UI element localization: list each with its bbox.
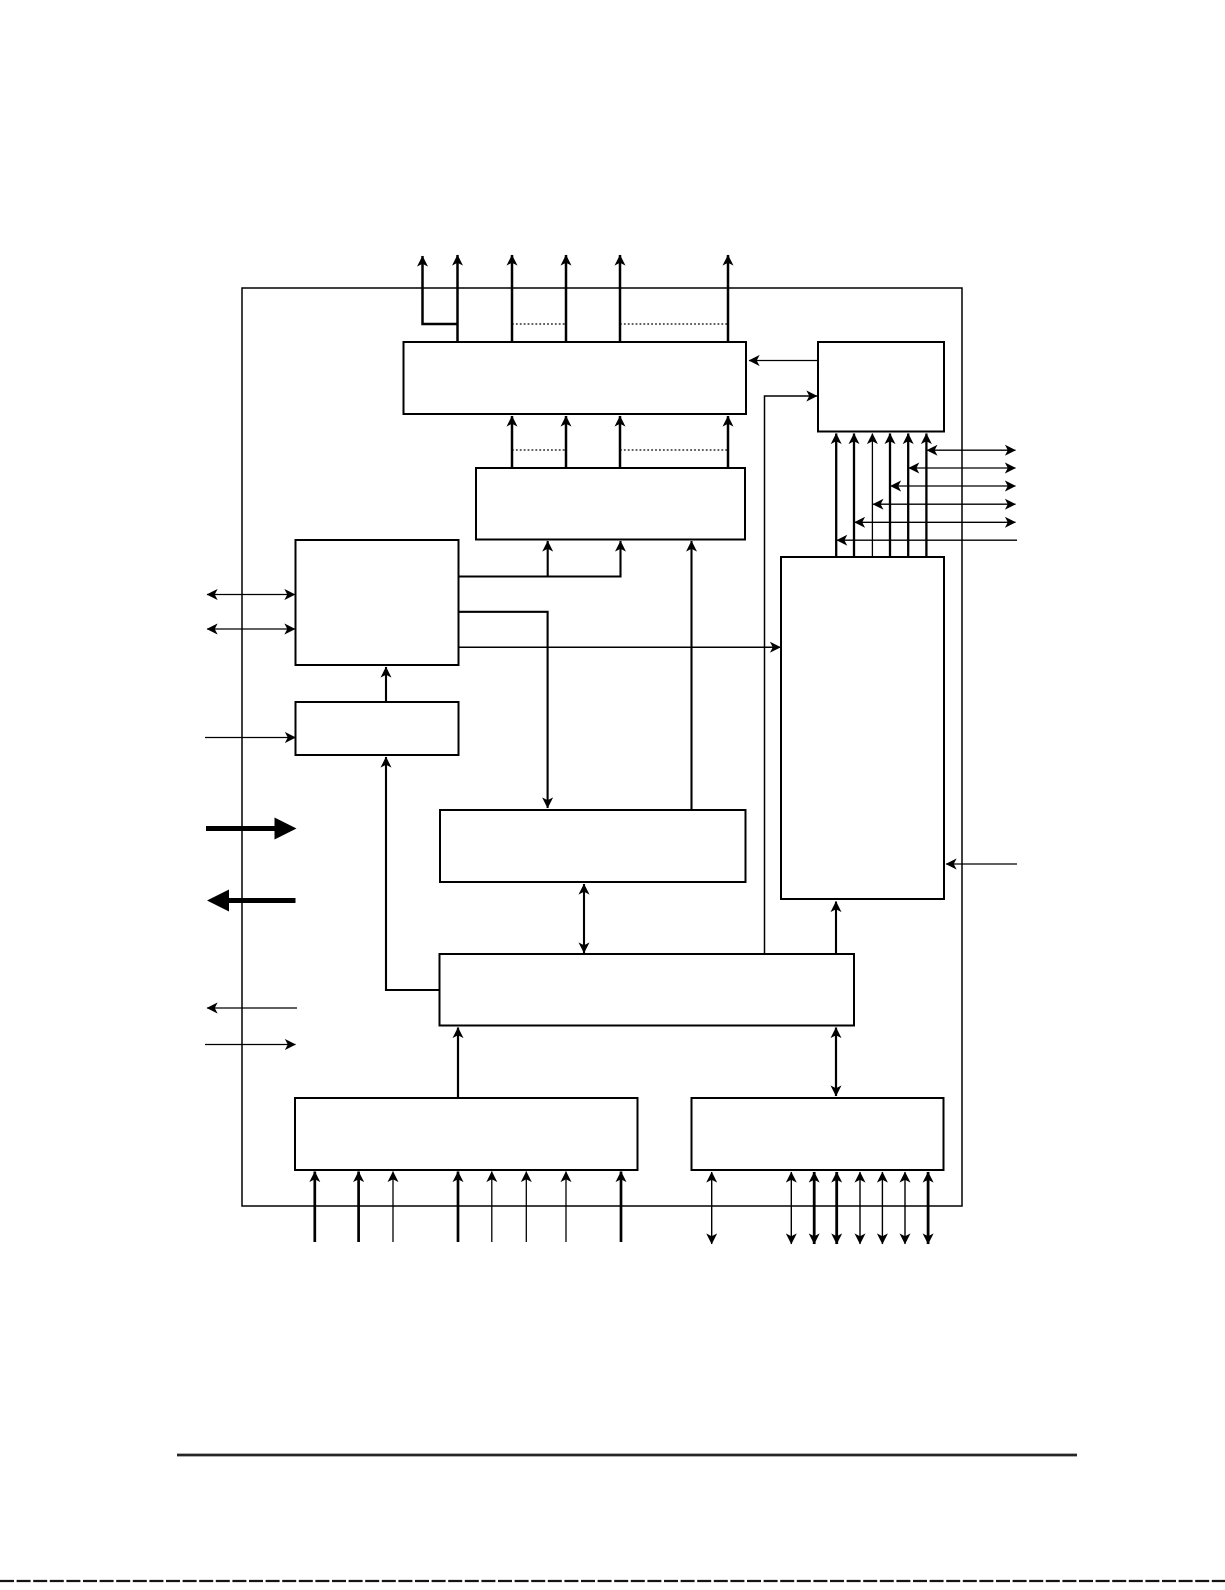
wire bus output arrow 6 from block B1 top [727, 255, 730, 343]
wire bus line 2 from block B6 top to block B10 bottom [853, 434, 855, 558]
bus continuation dotted line between B2-B1 arrows 3-4 [620, 449, 727, 451]
wire input arrow 7 into block B8 bottom [565, 1172, 567, 1243]
bidirectional external bus line 1 [927, 449, 1016, 451]
outer frame border [242, 288, 962, 1206]
bidirectional wire between block B5 and block B7 [583, 884, 585, 953]
bidirectional external bus line 2 [909, 467, 1016, 469]
bidirectional external bus line 3 [891, 485, 1016, 487]
wire input arrow 5 into block B8 bottom [491, 1172, 493, 1243]
wire bus line 5 from block B6 top to block B10 bottom [907, 434, 909, 558]
bidirectional external bus line 5 [855, 521, 1016, 523]
wire input arrow into block B4 left [205, 737, 296, 739]
wire from block B3 right edge to block B6 left [458, 646, 781, 648]
wire from block B7 left edge up to block B4 bottom [386, 757, 440, 990]
footer horizontal rule [177, 1454, 1077, 1457]
wire input arrow 2 into block B8 bottom [357, 1172, 360, 1243]
bidirectional wire 8 at block B9 bottom [927, 1172, 930, 1244]
wire from block B7 top up and right into block B10 [765, 396, 818, 954]
wire bus line 4 from block B6 top to block B10 bottom [889, 434, 891, 558]
wire bus output arrow 3 from block B1 top [511, 255, 514, 343]
wire input arrow pointing right at lower border [205, 1044, 296, 1046]
block B2 (second register) [476, 468, 745, 540]
wire bus line 3 from block B6 top to block B10 bottom [871, 434, 873, 558]
wire bus line 6 from block B6 top to block B10 bottom [925, 434, 927, 558]
bidirectional wire arrow at block B3 left (lower) [207, 628, 295, 630]
wire arrow from block B10 left to block B1 right [749, 360, 817, 362]
wire bus output arrow 2 from block B1 top [456, 255, 459, 343]
block B3 (left control block) [296, 540, 459, 665]
wire input arrow 6 into block B8 bottom [525, 1172, 527, 1243]
bidirectional wire 3 at block B9 bottom [813, 1172, 816, 1244]
block B4 (small left block) [296, 702, 459, 755]
bidirectional wire arrow at block B3 left (upper) [207, 594, 295, 596]
thick data bus arrow pointing left (output) [207, 890, 296, 912]
wire arrow from block B7 top to block B6 bottom [835, 902, 837, 955]
page bottom dashed line [0, 1580, 1225, 1582]
thick data bus arrow pointing right (input) [206, 818, 297, 840]
wire arrow 4 from block B2 to block B1 [727, 416, 730, 468]
wire from block B3 right edge to B2 inputs [458, 541, 621, 577]
block B6 (tall right block) [781, 557, 944, 899]
wire bus output arrow 5 from block B1 top [619, 255, 622, 343]
external bus line 6 (no right arrowhead) [837, 539, 1017, 541]
wire bus output arrow 4 from block B1 top [565, 255, 568, 343]
block B1 (top wide register) [404, 342, 747, 414]
wire input arrow 4 into block B8 bottom [457, 1172, 460, 1243]
bidirectional wire 5 at block B9 bottom [859, 1172, 861, 1244]
wire arrow 1 from block B2 to block B1 [511, 416, 514, 468]
block B7 (wide lower block) [440, 954, 855, 1026]
bidirectional wire 4 at block B9 bottom [835, 1172, 838, 1244]
bidirectional wire between block B7 and block B9 [835, 1028, 837, 1097]
bidirectional wire 2 at block B9 bottom [790, 1172, 792, 1244]
bidirectional wire 1 at block B9 bottom [711, 1172, 713, 1244]
wire output arrow pointing left at lower border [207, 1007, 297, 1009]
wire arrow 3 from block B2 to block B1 [619, 416, 622, 468]
wire bus output arrow 1 (jogged) from block B1 top [423, 256, 458, 324]
bus continuation dotted line between outputs 3-4 [512, 323, 566, 325]
wire arrow from block B8 top to block B7 bottom [457, 1028, 459, 1099]
wire vertical from block B5 top to block B2 bottom [690, 541, 692, 810]
wire from block B3 right edge down to block B5 top [458, 612, 548, 808]
bidirectional wire 6 at block B9 bottom [881, 1172, 883, 1244]
bidirectional wire 7 at block B9 bottom [904, 1172, 906, 1244]
bus continuation dotted line between B2-B1 arrows 1-2 [512, 449, 566, 451]
wire bus line 1 from block B6 top to block B10 bottom [835, 434, 837, 558]
wire input arrow 8 into block B8 bottom [620, 1172, 623, 1243]
wire arrow from block B4 top to block B3 bottom [385, 667, 387, 702]
wire input arrow 3 into block B8 bottom [392, 1172, 394, 1243]
block B8 (bottom left block) [295, 1098, 638, 1170]
wire input arrow into block B6 right edge [946, 863, 1017, 865]
block B5 (middle block) [440, 810, 746, 882]
wire branch arrow into block B2 bottom [547, 541, 549, 577]
block B9 (bottom right block) [692, 1098, 944, 1170]
wire input arrow 1 into block B8 bottom [313, 1172, 316, 1243]
bus continuation dotted line between outputs 5-6 [620, 323, 727, 325]
block B10 (top right block) [818, 342, 944, 432]
bidirectional external bus line 4 [873, 503, 1016, 505]
wire arrow 2 from block B2 to block B1 [565, 416, 568, 468]
